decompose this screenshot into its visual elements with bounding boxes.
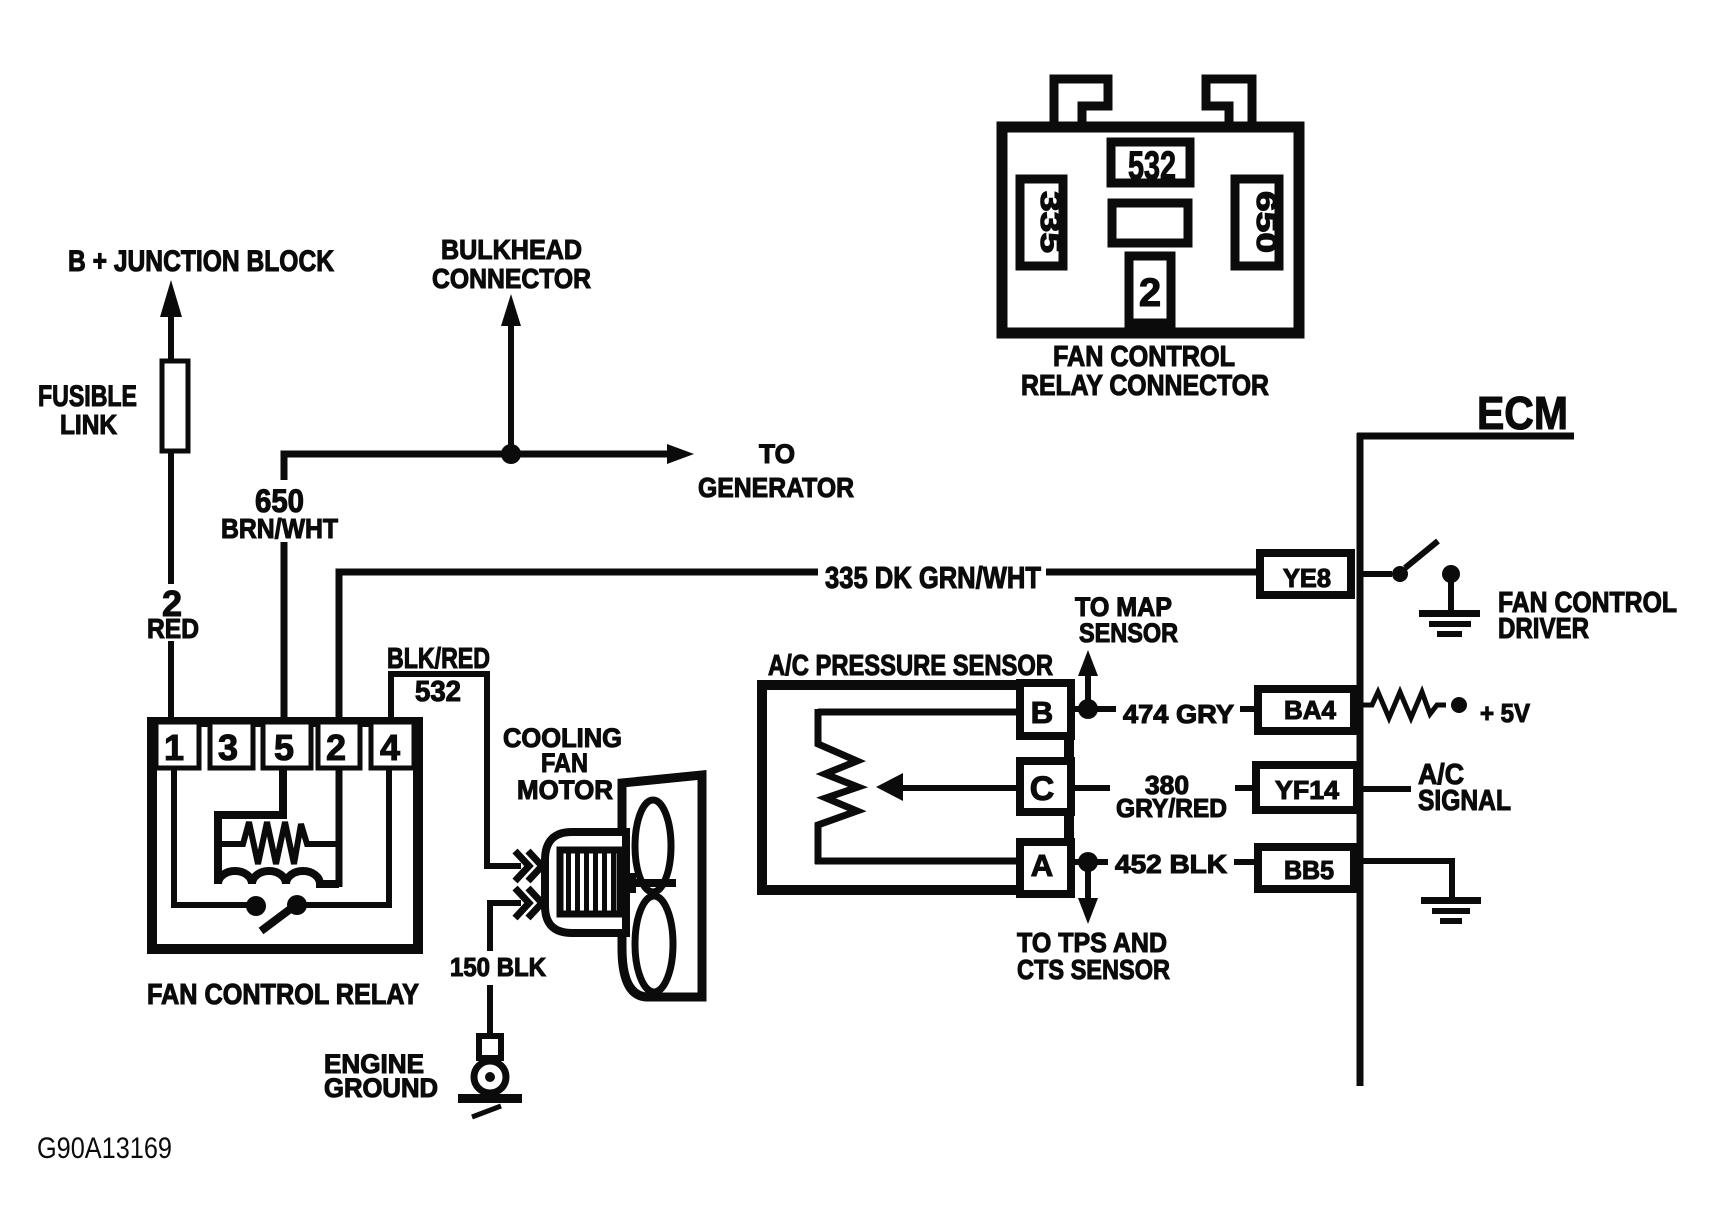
junction node B <box>1078 699 1098 719</box>
wiper arrow to pin C <box>898 785 1020 791</box>
svg-text:MOTOR: MOTOR <box>517 775 613 805</box>
junction node A <box>1078 852 1098 872</box>
svg-text:RED: RED <box>147 613 199 644</box>
svg-text:3: 3 <box>218 727 238 768</box>
wire: fusible link to relay pin 1 (circuit 2 RED) <box>168 453 174 717</box>
svg-text:A: A <box>1031 848 1053 883</box>
wire: arrow to MAP sensor <box>1085 668 1091 709</box>
ground: fan control driver <box>1419 610 1480 637</box>
svg-text:150 BLK: 150 BLK <box>450 952 546 982</box>
ECM terminal YE8 <box>1260 553 1351 595</box>
svg-text:YE8: YE8 <box>1283 563 1331 593</box>
arrow to B+ junction block <box>160 280 182 317</box>
relay K1: fan control relay outline <box>152 722 418 949</box>
wire: relay pin 1 to switch contact <box>174 770 247 905</box>
connector tab right <box>1206 79 1252 122</box>
svg-text:474 GRY: 474 GRY <box>1123 699 1234 729</box>
fan blade lower <box>635 896 673 992</box>
svg-text:2: 2 <box>326 727 346 768</box>
svg-text:452 BLK: 452 BLK <box>1115 849 1227 879</box>
wire: bulkhead connector riser <box>508 318 514 455</box>
svg-text:SENSOR: SENSOR <box>1079 618 1178 648</box>
svg-text:BULKHEAD: BULKHEAD <box>441 234 582 265</box>
ECM terminal BB5 <box>1258 847 1354 889</box>
wire: sensor pin B to potentiometer top <box>818 709 1020 716</box>
engine ground bolt <box>479 1036 501 1058</box>
sensor pin C <box>1020 761 1071 812</box>
connector cavity 650 <box>1235 179 1279 266</box>
svg-text:335: 335 <box>1035 191 1066 253</box>
A/C pressure sensor outline <box>762 685 1069 890</box>
potentiometer resistive element <box>818 709 858 864</box>
svg-text:SIGNAL: SIGNAL <box>1418 785 1511 817</box>
svg-text:+ 5V: + 5V <box>1480 698 1531 728</box>
wire: BB5 to ground <box>1361 861 1452 897</box>
svg-text:335 DK GRN/WHT: 335 DK GRN/WHT <box>825 560 1041 595</box>
switch blade <box>261 901 301 931</box>
ECM terminal YF14 <box>1256 765 1357 810</box>
svg-text:BB5: BB5 <box>1284 855 1334 885</box>
svg-text:532: 532 <box>415 676 461 708</box>
ground: BB5 <box>1421 897 1481 924</box>
connector cavity 2 <box>1129 256 1171 323</box>
svg-text:LINK: LINK <box>60 409 117 440</box>
svg-text:BRN/WHT: BRN/WHT <box>221 513 338 544</box>
relay pin cavity boxes <box>156 722 414 768</box>
wire: relay pin 2 to coil right <box>336 770 343 887</box>
svg-text:532: 532 <box>1128 144 1176 188</box>
svg-text:RELAY CONNECTOR: RELAY CONNECTOR <box>1021 370 1269 402</box>
wire: 474 GRY from sensor pin B to ECM BA4 <box>1072 706 1256 712</box>
svg-text:TO: TO <box>759 439 795 469</box>
svg-text:C: C <box>1030 770 1055 808</box>
svg-text:BA4: BA4 <box>1284 695 1337 725</box>
wire: potentiometer bottom to sensor pin A <box>815 858 1020 865</box>
contact node right <box>287 895 307 915</box>
wire: 335 DK GRN/WHT from relay pin 2 to ECM YE8 <box>339 572 1256 717</box>
arrow to generator <box>667 444 694 464</box>
connector cavity 335 <box>1020 179 1063 266</box>
chevron connector upper (motor feed) <box>515 851 542 881</box>
wire: arrow to TPS and CTS sensor <box>1085 862 1091 902</box>
svg-text:FAN CONTROL RELAY: FAN CONTROL RELAY <box>147 979 419 1011</box>
wire: BLK/RED 532 from relay pin 4 to cooling fan motor <box>391 674 521 866</box>
connector cavity 532 <box>1111 142 1190 183</box>
svg-text:A/C PRESSURE SENSOR: A/C PRESSURE SENSOR <box>768 650 1053 682</box>
wire: relay pin 5 to coil <box>218 770 283 884</box>
svg-text:GRY/RED: GRY/RED <box>1116 793 1227 823</box>
wire: 380 GRY/RED from sensor pin C to ECM YF14 <box>1074 785 1252 791</box>
motor shaft <box>620 879 676 887</box>
svg-text:5: 5 <box>274 727 294 768</box>
svg-text:CONNECTOR: CONNECTOR <box>432 263 591 294</box>
svg-text:G90A13169: G90A13169 <box>37 1132 172 1165</box>
label 650 BRN/WHT <box>215 480 342 542</box>
arrow to bulkhead connector <box>501 294 521 326</box>
svg-text:650: 650 <box>1251 191 1282 253</box>
wire: B+ junction riser <box>168 306 174 362</box>
svg-text:1: 1 <box>164 727 184 768</box>
wire: switch to relay pin 4 <box>306 770 389 905</box>
wire: 150 BLK from motor to engine ground <box>490 903 521 1036</box>
svg-text:ECM: ECM <box>1477 387 1568 439</box>
svg-text:FAN: FAN <box>541 748 588 778</box>
connector tab left <box>1054 79 1108 122</box>
connector cavity blank <box>1112 203 1188 243</box>
svg-text:FAN CONTROL: FAN CONTROL <box>1053 341 1235 373</box>
svg-text:4: 4 <box>380 727 400 768</box>
fan control driver switch <box>1363 571 1392 577</box>
coil scallops <box>218 871 339 884</box>
svg-text:GENERATOR: GENERATOR <box>698 472 854 503</box>
contact node left <box>246 896 266 916</box>
motor armature <box>560 850 620 914</box>
svg-text:BLK/RED: BLK/RED <box>387 643 490 675</box>
svg-text:CTS SENSOR: CTS SENSOR <box>1017 954 1170 985</box>
motor M1 housing <box>545 832 626 933</box>
fan control relay connector outline <box>1002 127 1299 333</box>
resistor: 5V pull-up <box>1362 692 1446 718</box>
svg-text:YF14: YF14 <box>1275 775 1340 805</box>
fusible link FL <box>162 361 188 451</box>
fan shroud <box>622 775 702 997</box>
wire: A/C signal stub <box>1361 786 1411 792</box>
ECM terminal BA4 <box>1258 689 1354 731</box>
svg-text:2: 2 <box>1139 271 1161 315</box>
wire: 452 BLK from sensor pin A to ECM BB5 <box>1072 859 1256 865</box>
svg-text:GROUND: GROUND <box>324 1073 438 1103</box>
svg-text:DRIVER: DRIVER <box>1498 613 1589 645</box>
junction: bulkhead node <box>501 444 521 464</box>
wire: 650 BRN/WHT feed, corner to relay pin 5 <box>284 454 670 717</box>
svg-text:B: B <box>1031 695 1053 730</box>
chevron connector lower (motor ground) <box>515 888 542 918</box>
svg-text:B + JUNCTION BLOCK: B + JUNCTION BLOCK <box>68 245 334 278</box>
fan blade upper <box>635 800 671 892</box>
sensor pin B <box>1020 683 1071 736</box>
sensor pin A <box>1020 842 1071 894</box>
ECM boundary <box>1357 433 1364 1086</box>
resistor: relay coil winding resistance <box>218 822 341 864</box>
